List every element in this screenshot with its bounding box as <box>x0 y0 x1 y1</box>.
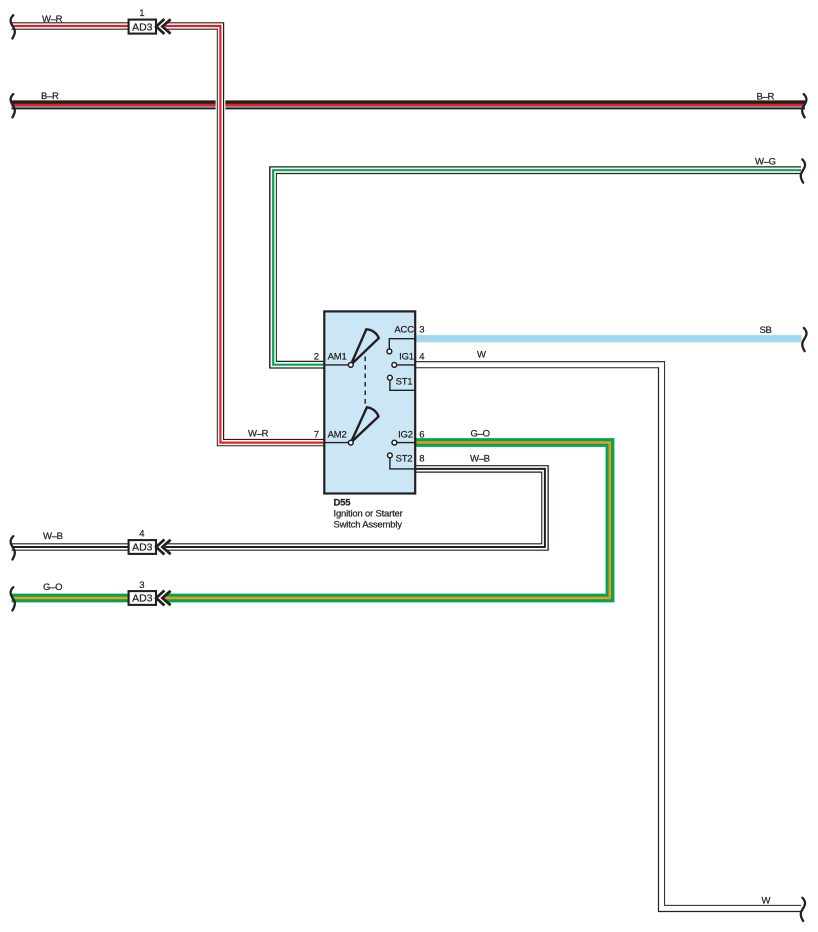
wire W-R stub (left of connector AD3-1) <box>12 22 129 29</box>
svg-text:W: W <box>762 895 771 906</box>
svg-text:AM1: AM1 <box>328 351 347 362</box>
svg-text:W–B: W–B <box>43 531 63 542</box>
wire W-B stub (left of connector AD3-4) <box>12 543 129 551</box>
connector AD3-3 chevrons <box>156 591 170 606</box>
svg-text:Ignition or Starter: Ignition or Starter <box>334 508 403 519</box>
contact ACC stub <box>387 339 416 354</box>
svg-text:ACC: ACC <box>394 325 414 336</box>
svg-text:W: W <box>477 350 486 361</box>
svg-text:8: 8 <box>419 453 424 464</box>
connector AD3-4 box <box>129 540 156 554</box>
switch wiper AM1 <box>325 329 379 367</box>
svg-text:Switch Assembly: Switch Assembly <box>334 519 403 530</box>
continuation squiggle W-B left <box>11 536 15 559</box>
contact ST2 stub <box>388 453 416 469</box>
svg-text:4: 4 <box>419 351 424 362</box>
svg-text:6: 6 <box>419 429 424 440</box>
continuation squiggle W right <box>801 898 805 921</box>
svg-text:W–G: W–G <box>755 156 776 167</box>
continuation squiggle G-O left <box>11 587 15 610</box>
ignition switch D55 body <box>324 311 415 493</box>
svg-text:B–R: B–R <box>757 91 775 102</box>
continuation squiggle SB right <box>802 328 806 351</box>
contact IG2 stub <box>392 440 416 445</box>
svg-text:2: 2 <box>314 351 319 362</box>
svg-text:3: 3 <box>139 580 144 591</box>
wire B-R (battery feed, horizontal across page) <box>12 105 806 107</box>
svg-text:AD3: AD3 <box>132 542 153 554</box>
svg-text:G–O: G–O <box>471 428 490 439</box>
svg-text:B–R: B–R <box>41 91 59 102</box>
svg-text:D55: D55 <box>334 498 352 509</box>
contact ST1 stub <box>388 375 416 390</box>
mechanical link (dashed) <box>364 357 366 406</box>
switch wiper AM2 <box>325 407 379 445</box>
wire W-R (from connector AD3-1 down to AM2 pin 7, crosses B-R) <box>165 26 323 443</box>
svg-text:ST1: ST1 <box>396 377 413 388</box>
svg-text:SB: SB <box>760 325 772 336</box>
svg-text:AD3: AD3 <box>132 21 153 33</box>
svg-text:7: 7 <box>314 429 319 440</box>
wire G-O (from IG2 pin 6 down-left to connector AD3-3) <box>165 443 610 599</box>
connector AD3-3 box <box>129 591 156 605</box>
svg-text:W–R: W–R <box>42 14 63 25</box>
svg-text:AM2: AM2 <box>328 429 347 440</box>
wire W-G (from right edge to AM1 pin 2) <box>273 170 801 365</box>
svg-text:AD3: AD3 <box>132 593 153 605</box>
connector AD3-4 chevrons <box>156 540 170 555</box>
continuation squiggle W-G right <box>801 159 805 182</box>
continuation squiggle W-R left <box>11 15 15 38</box>
continuation squiggle B-R left <box>11 94 15 117</box>
connector AD3-1 box <box>129 20 156 34</box>
svg-text:W–R: W–R <box>248 429 269 440</box>
wire G-O stub (left of connector AD3-3) <box>12 594 129 603</box>
svg-text:1: 1 <box>139 8 144 19</box>
svg-text:IG1: IG1 <box>399 351 414 362</box>
connector AD3-1 chevrons <box>156 19 170 34</box>
continuation squiggle B-R right <box>802 94 806 117</box>
svg-text:IG2: IG2 <box>398 429 413 440</box>
svg-text:ST2: ST2 <box>396 453 413 464</box>
svg-text:G–O: G–O <box>43 582 62 593</box>
wire W (from IG1 pin 4 to bottom right edge) <box>416 365 801 909</box>
wire W-B (from ST2 pin 8 down-left to connector AD3-4) <box>165 469 545 547</box>
svg-text:W–B: W–B <box>470 454 490 465</box>
contact IG1 stub <box>392 363 416 368</box>
svg-text:4: 4 <box>139 528 144 539</box>
svg-text:3: 3 <box>419 325 424 336</box>
wire SB (from ACC pin 3 to right edge) <box>416 335 802 342</box>
